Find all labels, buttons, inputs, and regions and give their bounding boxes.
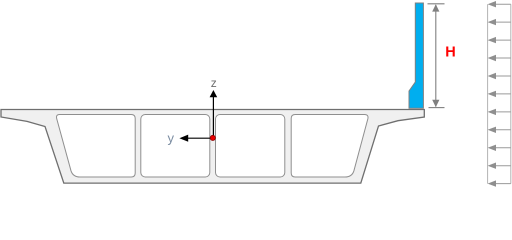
box girder cross-section outline: [1, 110, 424, 184]
cell 3: [216, 115, 285, 178]
load arrow 9: [490, 147, 511, 149]
z axis arrowhead: [210, 90, 218, 97]
distributed load strip: right vertical line: [510, 4, 512, 183]
origin node (red dot): [210, 135, 215, 140]
load arrow 4: [490, 57, 511, 59]
dimension H: bottom arrowhead: [432, 100, 439, 107]
svg-text:H: H: [445, 45, 455, 61]
load arrow 5: [490, 75, 511, 77]
load arrow 6: [490, 93, 511, 95]
load arrow 11: [490, 183, 511, 185]
cell 4 (right, sloped outer edge): [291, 115, 368, 178]
y axis line: [181, 137, 213, 139]
cell 2: [141, 115, 210, 178]
svg-text:z: z: [211, 76, 217, 90]
dimension H: top extension tick: [428, 3, 445, 5]
cell 1 (left, sloped outer edge): [57, 115, 136, 178]
distributed load strip: left vertical line: [487, 4, 489, 183]
dimension H: bottom extension tick: [429, 107, 445, 109]
load arrow 1: [490, 3, 511, 5]
load arrow 2: [490, 21, 511, 23]
load arrow 7: [490, 111, 511, 113]
dimension H: top arrowhead: [432, 4, 439, 11]
load arrow 3: [490, 39, 511, 41]
barrier (blue): [409, 3, 423, 108]
load arrow 8: [490, 129, 511, 131]
z axis line: [212, 92, 214, 138]
dimension H: vertical line: [435, 5, 437, 107]
load arrows (11, pointing left): [488, 1, 511, 187]
y axis arrowhead: [179, 135, 188, 142]
svg-text:y: y: [168, 131, 175, 146]
load arrow 10: [490, 165, 511, 167]
